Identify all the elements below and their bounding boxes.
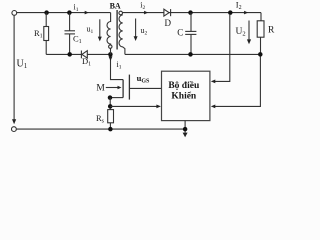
diode D: [164, 9, 171, 16]
capacitor C1: [65, 13, 76, 55]
resistor R load: [257, 21, 264, 37]
wire top input rail: [16, 12, 110, 14]
node feedback top junction: [228, 10, 233, 15]
wire gate drive: [129, 87, 161, 89]
resistor Rs: [108, 110, 114, 123]
wire Rs bottom lead: [109, 123, 111, 129]
node C1 top junction: [67, 10, 72, 15]
node switch-primary junction: [108, 52, 113, 57]
node C1 bottom junction: [67, 52, 72, 57]
svg-text:D: D: [165, 18, 172, 28]
wire sense arrow: [110, 105, 161, 109]
wire secondary top rail: [123, 12, 262, 14]
svg-text:Bộ điều: Bộ điều: [168, 80, 200, 91]
input terminal top: [12, 11, 17, 16]
controller box: [162, 71, 210, 120]
wire R1 branch: [45, 13, 47, 55]
node sense junction: [108, 104, 113, 109]
current arrow i1 switch: [109, 56, 113, 61]
svg-text:u1: u1: [87, 25, 94, 36]
wire source to sense: [109, 98, 111, 110]
node controller ground junction: [183, 127, 188, 132]
current arrow i2: [143, 11, 148, 15]
svg-text:BA: BA: [110, 2, 121, 11]
svg-text:D1: D1: [82, 56, 91, 68]
node source junction: [108, 95, 113, 100]
resistor R1: [44, 27, 49, 41]
svg-text:R: R: [268, 26, 275, 36]
svg-text:C: C: [177, 28, 183, 38]
transformer BA primary winding: [107, 13, 111, 45]
svg-text:I2: I2: [236, 0, 242, 11]
node Rs bottom junction: [108, 127, 113, 132]
secondary polarity mark: [119, 11, 123, 15]
svg-text:i1: i1: [74, 2, 79, 13]
node C top junction: [188, 10, 193, 15]
node C bottom junction: [188, 52, 193, 57]
MOSFET M substrate arrow: [106, 86, 122, 90]
primary polarity mark: [109, 45, 112, 48]
svg-text:i1: i1: [117, 60, 122, 71]
svg-text:u2: u2: [141, 26, 148, 37]
svg-text:uGS: uGS: [137, 73, 150, 84]
MOSFET M drain lead: [111, 57, 124, 80]
svg-text:U2: U2: [236, 27, 246, 38]
wire load branch: [260, 13, 262, 21]
current arrow I2: [243, 11, 248, 15]
wire secondary bottom rail: [125, 53, 260, 55]
wire primary bottom stub: [110, 48, 112, 54]
wire R bottom lead: [260, 37, 262, 54]
svg-text:C1: C1: [73, 33, 82, 45]
svg-text:M: M: [96, 84, 105, 94]
MOSFET M source lead: [110, 97, 123, 99]
svg-text:Khiển: Khiển: [171, 91, 197, 102]
voltage arrow u2: [134, 19, 138, 42]
diode D1: [81, 51, 87, 59]
current arrow i1: [84, 11, 89, 15]
MOSFET M gate bar: [128, 75, 130, 100]
node feedback bottom junction: [258, 52, 263, 57]
wire feedback 2: [211, 57, 261, 109]
ground arrow: [183, 133, 188, 138]
transformer core: [116, 10, 118, 50]
svg-text:R1: R1: [34, 28, 43, 40]
voltage arrow u1: [98, 19, 102, 41]
wire feedback 1: [211, 15, 230, 84]
wire controller ground: [184, 121, 186, 133]
source voltage arrow U1: [12, 16, 16, 125]
wire bottom rail: [16, 128, 185, 130]
input terminal bottom: [12, 127, 17, 132]
voltage arrow U2: [247, 21, 251, 45]
node R1 top junction: [44, 10, 49, 15]
capacitor C: [185, 13, 196, 55]
MOSFET M channel bar: [122, 80, 124, 98]
transformer BA secondary winding: [119, 15, 125, 55]
svg-text:i2: i2: [140, 1, 145, 12]
svg-text:U1: U1: [17, 58, 28, 70]
wire clamp rail: [46, 53, 110, 55]
svg-text:Rs: Rs: [96, 113, 105, 125]
